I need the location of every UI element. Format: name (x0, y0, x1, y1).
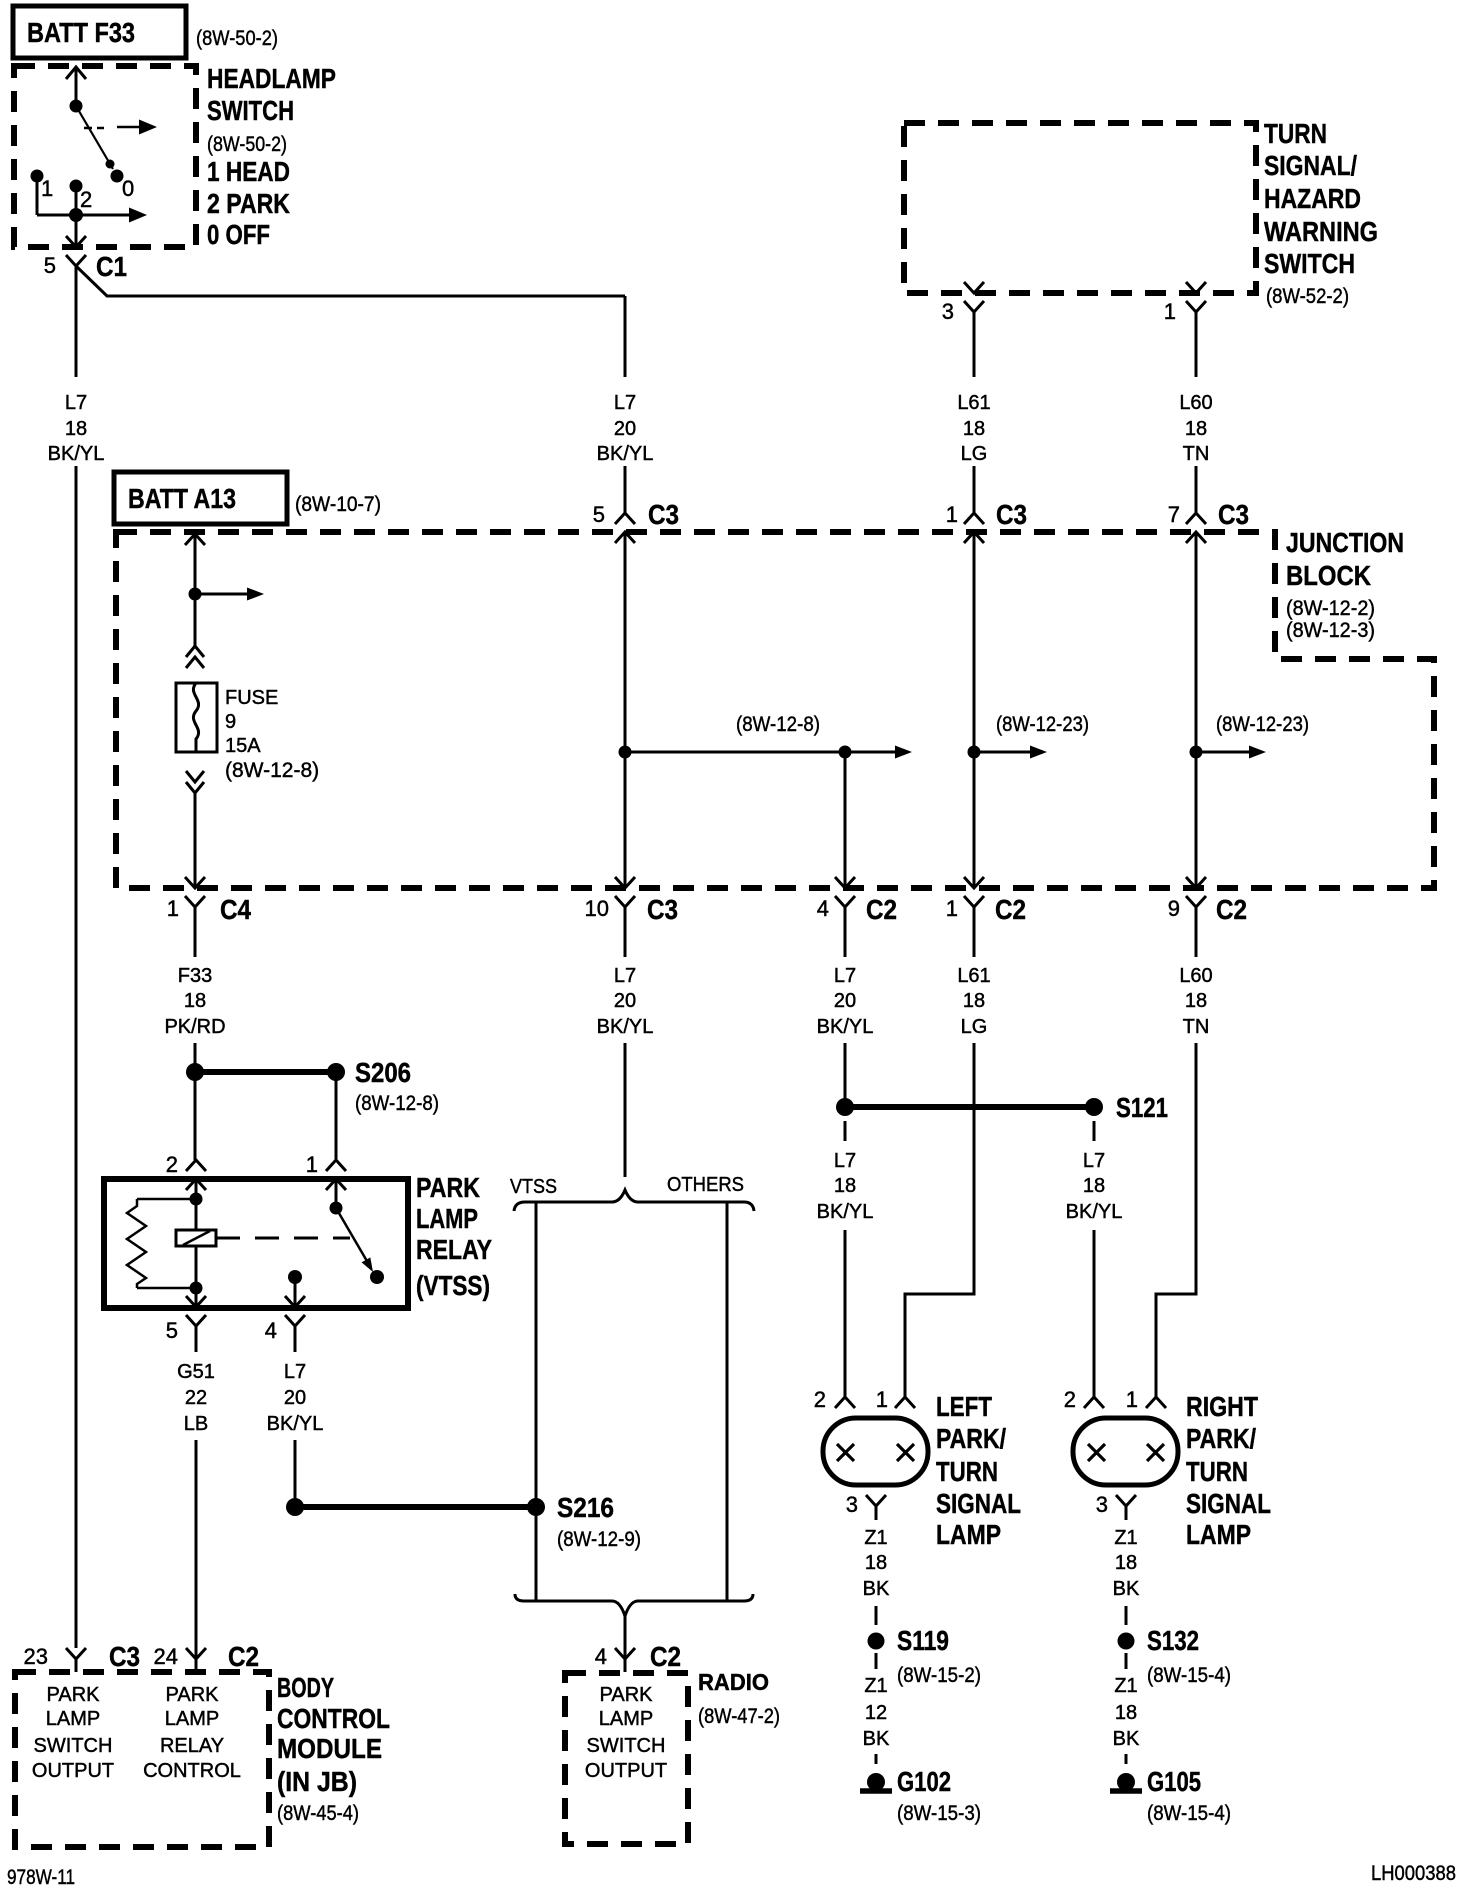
right lamp filament X right (1147, 1444, 1164, 1461)
svg-text:S121: S121 (1116, 1092, 1168, 1123)
fuse output wire to 1 C4 (194, 793, 197, 888)
svg-text:4: 4 (817, 896, 829, 921)
wire S121 right dashed stub (1093, 1121, 1096, 1141)
switch actuation dashed tie (84, 127, 104, 130)
connector C1 pin 5 symbol (66, 236, 86, 247)
svg-text:HAZARD: HAZARD (1264, 183, 1361, 214)
svg-text:18: 18 (1115, 1702, 1137, 1724)
switch wiper arrowhead (106, 160, 115, 169)
svg-text:L61: L61 (957, 392, 990, 414)
wire dash below S132 (1125, 1653, 1128, 1669)
splice S121 tie line (845, 1104, 1094, 1110)
svg-text:4: 4 (595, 1644, 607, 1669)
svg-text:L7: L7 (284, 1361, 306, 1383)
splice S119 dot (868, 1633, 885, 1650)
svg-text:L61: L61 (957, 965, 990, 987)
switch output arrow right (76, 214, 130, 217)
svg-text:SWITCH: SWITCH (587, 1735, 666, 1757)
svg-text:HEADLAMP: HEADLAMP (207, 63, 336, 94)
svg-text:1: 1 (41, 176, 53, 201)
svg-text:S206: S206 (355, 1057, 411, 1088)
svg-text:CONTROL: CONTROL (277, 1703, 390, 1734)
svg-text:18: 18 (963, 418, 985, 440)
wire 4C2 down upper (844, 907, 847, 957)
svg-text:BLOCK: BLOCK (1286, 560, 1371, 591)
fuse bottom terminal chevrons (186, 771, 204, 782)
relay coil top dot (190, 1193, 203, 1206)
right lamp filament X left (1088, 1444, 1105, 1461)
svg-text:C2: C2 (995, 894, 1026, 925)
fuse feed box BATT F33 (13, 6, 186, 58)
svg-text:C2: C2 (228, 1641, 259, 1672)
svg-text:1: 1 (167, 896, 179, 921)
batt a13 feed male arrow (185, 534, 205, 545)
svg-text:RELAY: RELAY (416, 1234, 492, 1265)
svg-text:5: 5 (44, 253, 56, 278)
svg-text:SWITCH: SWITCH (34, 1735, 113, 1757)
svg-text:15A: 15A (225, 735, 261, 757)
svg-text:L7: L7 (834, 965, 856, 987)
wire S121 left dashed stub (844, 1121, 847, 1141)
svg-text:OTHERS: OTHERS (667, 1174, 744, 1196)
switch actuation arrow (117, 126, 141, 129)
svg-text:TURN: TURN (1264, 118, 1327, 149)
svg-text:TURN: TURN (1186, 1456, 1248, 1487)
svg-text:3: 3 (942, 299, 954, 324)
wire L60 to 7 C3 (1195, 466, 1198, 514)
relay coil feed wire (195, 1179, 198, 1230)
svg-text:PARK: PARK (416, 1172, 480, 1203)
svg-text:Z1: Z1 (1114, 1527, 1137, 1549)
wire 1C3 down inside block (973, 533, 976, 888)
park lamp relay box (104, 1179, 408, 1308)
svg-text:978W-11: 978W-11 (7, 1866, 75, 1889)
relay resistor bottom lead (137, 1287, 196, 1290)
svg-text:7: 7 (1168, 502, 1180, 527)
turn signal hazard switch dashed box (904, 123, 1256, 293)
headlamp switch dashed box (14, 66, 196, 247)
svg-text:(8W-45-4): (8W-45-4) (277, 1802, 359, 1825)
svg-text:1: 1 (946, 502, 958, 527)
svg-text:LAMP: LAMP (165, 1708, 219, 1730)
feed branch arrow right (195, 593, 248, 596)
svg-text:20: 20 (834, 990, 856, 1012)
connector 4 C2 symbol (835, 877, 855, 888)
svg-text:OUTPUT: OUTPUT (585, 1760, 667, 1782)
connector 1 C4 symbol (185, 877, 205, 888)
svg-text:SIGNAL: SIGNAL (936, 1488, 1021, 1519)
wire contact1 to output (36, 176, 39, 215)
connector 1 C2 symbol (964, 877, 984, 888)
svg-text:MODULE: MODULE (277, 1733, 382, 1764)
svg-text:18: 18 (1083, 1175, 1105, 1197)
relay pin5 wire to edge (195, 1288, 198, 1307)
svg-text:BK: BK (1113, 1578, 1140, 1600)
svg-text:Z1: Z1 (864, 1527, 887, 1549)
svg-text:PARK: PARK (47, 1684, 101, 1706)
svg-text:C4: C4 (220, 894, 251, 925)
svg-text:22: 22 (185, 1387, 207, 1409)
svg-text:(8W-12-2): (8W-12-2) (1286, 597, 1375, 620)
svg-text:C2: C2 (1216, 894, 1247, 925)
svg-text:(8W-15-2): (8W-15-2) (897, 1664, 981, 1687)
svg-text:S132: S132 (1147, 1625, 1199, 1656)
wire relay pin5 stem (195, 1326, 198, 1352)
svg-text:3: 3 (846, 1492, 858, 1517)
svg-text:SWITCH: SWITCH (1264, 248, 1355, 279)
tap arrow right at x1196 (1196, 751, 1250, 754)
svg-text:Z1: Z1 (864, 1675, 887, 1697)
svg-text:S216: S216 (557, 1492, 614, 1523)
switch contact 2 dot (70, 180, 83, 193)
svg-text:L7: L7 (614, 965, 636, 987)
distribution bus line (625, 751, 896, 754)
wire S206 right to relay pin 1 (335, 1072, 338, 1160)
svg-text:BATT F33: BATT F33 (27, 17, 135, 48)
wire C1 pin5 down (upper) (75, 266, 78, 377)
svg-text:OUTPUT: OUTPUT (32, 1760, 114, 1782)
svg-text:TURN: TURN (936, 1456, 998, 1487)
svg-text:BK/YL: BK/YL (597, 1016, 654, 1038)
svg-text:RELAY: RELAY (160, 1735, 224, 1757)
svg-text:9: 9 (1168, 896, 1180, 921)
tap dot at x1196 (1190, 746, 1203, 759)
bcm dashed box (15, 1672, 269, 1847)
right lamp pin 3 connector (1116, 1495, 1136, 1506)
svg-text:(8W-12-9): (8W-12-9) (557, 1528, 641, 1551)
relay switch arm (336, 1208, 371, 1268)
wire 5C3 down inside block (624, 533, 627, 888)
svg-text:(IN JB): (IN JB) (277, 1766, 357, 1797)
left lamp pin 1 connector (895, 1397, 915, 1408)
svg-text:BK/YL: BK/YL (1066, 1201, 1123, 1223)
svg-text:F33: F33 (178, 965, 212, 987)
svg-text:SIGNAL/: SIGNAL/ (1264, 150, 1357, 181)
wire L61 to left lamp pin 1 (905, 1043, 974, 1397)
left lamp filament X right (897, 1444, 914, 1461)
svg-text:BATT A13: BATT A13 (128, 483, 236, 514)
wire 10C3 column to brace (624, 1043, 627, 1177)
wire VTSS branch (535, 1202, 538, 1601)
feed box BATT A13 (114, 472, 287, 524)
right lamp pin 2 connector (1084, 1397, 1104, 1408)
svg-text:G51: G51 (177, 1361, 215, 1383)
svg-text:23: 23 (24, 1644, 48, 1669)
wire dash to G105 (1125, 1754, 1128, 1764)
svg-text:20: 20 (614, 990, 636, 1012)
svg-text:(8W-15-4): (8W-15-4) (1147, 1802, 1231, 1825)
connector 1 C3 symbol (964, 513, 984, 524)
switch contact 1 dot (31, 170, 44, 183)
svg-text:TN: TN (1183, 1016, 1210, 1038)
svg-text:(8W-10-7): (8W-10-7) (295, 493, 381, 516)
splice S206 tie line (195, 1069, 336, 1075)
switch wiper arm (76, 106, 113, 169)
svg-text:18: 18 (65, 418, 87, 440)
svg-text:LEFT: LEFT (936, 1391, 992, 1422)
wire branch down to 5 C3 (lower) (624, 466, 627, 514)
wire L61 to 1 C3 (973, 466, 976, 514)
wire pin4 lower to S216 (294, 1440, 297, 1507)
wire L60 upper (1195, 312, 1198, 377)
distribution tap dot at x845 (839, 746, 852, 759)
svg-text:G105: G105 (1147, 1766, 1201, 1797)
connector 7 C3 symbol (1186, 513, 1206, 524)
wire 10C3 stem below junction block (624, 907, 627, 957)
svg-text:18: 18 (1185, 418, 1207, 440)
tap dot at x974 (968, 746, 981, 759)
svg-text:BK/YL: BK/YL (48, 443, 105, 465)
svg-text:LAMP: LAMP (416, 1203, 478, 1234)
svg-text:L7: L7 (614, 392, 636, 414)
relay pin 5 connector (186, 1296, 206, 1307)
bcm connector 24 C2 female (186, 1648, 206, 1659)
svg-text:SIGNAL: SIGNAL (1186, 1488, 1271, 1519)
wire OTHERS branch (726, 1202, 729, 1601)
svg-text:VTSS: VTSS (510, 1176, 557, 1198)
feed branch dot (189, 588, 202, 601)
wire dash below S119 (875, 1653, 878, 1669)
svg-text:FUSE: FUSE (225, 687, 278, 709)
relay coil to pin 5 wire (195, 1246, 198, 1288)
svg-text:1: 1 (876, 1387, 888, 1412)
svg-text:BK/YL: BK/YL (267, 1413, 324, 1435)
svg-text:1: 1 (946, 896, 958, 921)
connector 5 C3 symbol (615, 513, 635, 524)
bcm connector 23 C3 female (66, 1648, 86, 1659)
svg-text:WARNING: WARNING (1264, 216, 1378, 247)
svg-text:PK/RD: PK/RD (164, 1016, 225, 1038)
wire contact2 down to pin 5 (75, 186, 78, 247)
ground G102 symbol (867, 1773, 885, 1791)
left lamp pin 2 connector (835, 1397, 855, 1408)
junction block dashed outline (116, 532, 1434, 888)
svg-text:LH000388: LH000388 (1371, 1862, 1456, 1885)
svg-text:1: 1 (306, 1152, 318, 1177)
svg-text:CONTROL: CONTROL (143, 1760, 241, 1782)
svg-text:(8W-15-3): (8W-15-3) (897, 1802, 981, 1825)
svg-text:L7: L7 (65, 392, 87, 414)
distribution bus arrowhead (895, 746, 912, 759)
svg-text:18: 18 (184, 990, 206, 1012)
svg-text:(VTSS): (VTSS) (416, 1270, 490, 1301)
svg-text:5: 5 (593, 502, 605, 527)
left lamp filament X left (837, 1444, 854, 1461)
svg-text:RIGHT: RIGHT (1186, 1391, 1258, 1422)
tap arrow right at x974 (974, 751, 1031, 754)
svg-text:BK/YL: BK/YL (817, 1016, 874, 1038)
svg-text:LAMP: LAMP (1186, 1519, 1251, 1550)
relay resistor top lead (137, 1198, 196, 1201)
svg-text:9: 9 (225, 711, 236, 733)
wire S121 right to right lamp pin 2 (1093, 1230, 1096, 1397)
svg-text:12: 12 (865, 1702, 887, 1724)
svg-text:1: 1 (1164, 299, 1176, 324)
svg-text:G102: G102 (897, 1766, 951, 1797)
wire branch down to 5 C3 (upper) (624, 296, 627, 377)
relay coil box (176, 1230, 216, 1246)
svg-text:TN: TN (1183, 443, 1210, 465)
svg-text:1: 1 (1126, 1387, 1138, 1412)
relay switch pivot dot (330, 1202, 343, 1215)
svg-text:(8W-52-2): (8W-52-2) (1266, 285, 1349, 308)
svg-text:BK: BK (863, 1728, 890, 1750)
wire S121 left to left lamp pin 2 (844, 1230, 847, 1397)
svg-text:5: 5 (166, 1318, 178, 1343)
svg-text:C2: C2 (866, 894, 897, 925)
svg-text:Z1: Z1 (1114, 1675, 1137, 1697)
headlamp switch feed wire (75, 67, 78, 106)
svg-text:(8W-12-8): (8W-12-8) (225, 759, 319, 782)
svg-text:RADIO: RADIO (698, 1669, 769, 1695)
relay coil diagonal (183, 1231, 210, 1245)
relay pin4 wire to edge (294, 1277, 297, 1307)
svg-text:LAMP: LAMP (936, 1519, 1001, 1550)
wire G51 lower to 24 C2 (195, 1440, 198, 1659)
wire dash to G102 (875, 1754, 878, 1764)
radio connector 4 C2 female (615, 1648, 635, 1659)
svg-text:1 HEAD: 1 HEAD (207, 156, 290, 187)
fuse element wavy line (193, 683, 198, 752)
brace center tip to 4 C2 (624, 1616, 627, 1659)
wire dash to S132 (1125, 1606, 1128, 1625)
svg-text:4: 4 (265, 1318, 277, 1343)
svg-text:(8W-12-3): (8W-12-3) (1286, 619, 1375, 642)
svg-text:18: 18 (834, 1175, 856, 1197)
svg-text:10: 10 (585, 896, 609, 921)
svg-text:(8W-15-4): (8W-15-4) (1147, 1664, 1231, 1687)
wire relay pin4 stem (294, 1326, 297, 1352)
splice S121 right dot (1085, 1098, 1103, 1116)
wire branch C1 diagonal (76, 266, 625, 296)
svg-text:L60: L60 (1179, 392, 1212, 414)
svg-text:24: 24 (154, 1644, 178, 1669)
connector pin 3 of hazard switch (964, 282, 984, 293)
splice S121 left dot (836, 1098, 854, 1116)
svg-text:BK/YL: BK/YL (597, 443, 654, 465)
relay switch pin1 wire (335, 1179, 338, 1208)
relay pin 2 connector (186, 1160, 206, 1171)
svg-text:C2: C2 (650, 1641, 681, 1672)
right lamp pin 1 connector (1146, 1397, 1166, 1408)
wire 4C2 lower to S121 (844, 1043, 847, 1107)
svg-text:(8W-47-2): (8W-47-2) (698, 1705, 780, 1728)
relay resistor zigzag (127, 1199, 146, 1288)
svg-text:(8W-12-23): (8W-12-23) (1216, 713, 1309, 736)
wire dash to S119 (875, 1606, 878, 1625)
svg-text:L7: L7 (834, 1150, 856, 1172)
svg-text:PARK: PARK (166, 1684, 220, 1706)
svg-text:2: 2 (166, 1152, 178, 1177)
svg-text:S119: S119 (897, 1625, 949, 1656)
svg-text:(8W-12-8): (8W-12-8) (736, 713, 820, 736)
svg-text:LG: LG (961, 443, 988, 465)
svg-text:L7: L7 (1083, 1150, 1105, 1172)
svg-text:18: 18 (865, 1552, 887, 1574)
wire 1C2 down upper (973, 907, 976, 957)
svg-text:BK: BK (863, 1578, 890, 1600)
fuse top terminal chevrons (186, 646, 204, 657)
switch output junction dot (69, 208, 83, 222)
relay actuation dashed link (216, 1237, 350, 1240)
relay switch contact dot (370, 1270, 384, 1284)
svg-text:20: 20 (284, 1387, 306, 1409)
svg-text:LG: LG (961, 1016, 988, 1038)
svg-text:0: 0 (122, 176, 134, 201)
wire F33 upper (194, 907, 197, 957)
ground G105 symbol (1117, 1773, 1135, 1791)
wire 9C2 down upper (1195, 907, 1198, 957)
connector pin 1 of hazard switch (1186, 282, 1206, 293)
svg-text:C3: C3 (1218, 499, 1249, 530)
svg-text:0 OFF: 0 OFF (207, 219, 270, 250)
relay pin 4 connector (285, 1296, 305, 1307)
batt a13 feed wire upper (194, 534, 197, 646)
svg-text:C3: C3 (996, 499, 1027, 530)
svg-text:(8W-12-23): (8W-12-23) (996, 713, 1089, 736)
svg-text:18: 18 (1115, 1552, 1137, 1574)
svg-text:LAMP: LAMP (599, 1708, 653, 1730)
svg-text:(8W-50-2): (8W-50-2) (207, 133, 287, 156)
splice S206 left dot (186, 1063, 204, 1081)
wire L61 upper (973, 312, 976, 377)
svg-text:(8W-12-8): (8W-12-8) (355, 1092, 439, 1115)
splice S216 left dot (286, 1498, 304, 1516)
svg-text:PARK/: PARK/ (1186, 1423, 1256, 1454)
brace under VTSS/OTHERS (515, 1594, 753, 1616)
svg-text:PARK: PARK (600, 1684, 654, 1706)
svg-text:BK: BK (1113, 1728, 1140, 1750)
radio dashed box (565, 1673, 688, 1844)
wire S206 left to relay pin 2 (194, 1072, 197, 1160)
brace over VTSS/OTHERS (514, 1190, 754, 1211)
svg-text:3: 3 (1096, 1492, 1108, 1517)
svg-text:18: 18 (963, 990, 985, 1012)
svg-text:2 PARK: 2 PARK (207, 188, 290, 219)
splice S132 dot (1118, 1633, 1135, 1650)
relay coil bottom dot (190, 1282, 203, 1295)
switch common pole dot (70, 100, 83, 113)
relay switch arm arrowhead (362, 1257, 373, 1272)
wire from tap down to 4 C2 (844, 752, 847, 888)
wire F33 lower to S206 (194, 1043, 197, 1072)
svg-text:BODY: BODY (277, 1672, 334, 1703)
splice S216 right dot (527, 1498, 545, 1516)
svg-text:2: 2 (814, 1387, 826, 1412)
svg-text:LB: LB (184, 1413, 208, 1435)
svg-text:LAMP: LAMP (46, 1708, 100, 1730)
svg-text:2: 2 (1064, 1387, 1076, 1412)
svg-text:C3: C3 (109, 1641, 140, 1672)
svg-text:20: 20 (614, 418, 636, 440)
svg-text:SWITCH: SWITCH (207, 95, 294, 126)
right lamp bulb outline (1073, 1418, 1178, 1485)
connector 10 C3 symbol (615, 877, 635, 888)
svg-text:18: 18 (1185, 990, 1207, 1012)
svg-text:JUNCTION: JUNCTION (1286, 527, 1404, 558)
wire C1 pin5 down (long to BCM 23) (75, 466, 78, 1648)
svg-text:C3: C3 (647, 894, 678, 925)
svg-text:(8W-50-2): (8W-50-2) (196, 27, 278, 50)
connector 9 C2 symbol (1186, 877, 1206, 888)
wire L60 to right lamp pin 1 (1156, 1043, 1196, 1397)
svg-text:C1: C1 (96, 251, 127, 282)
wire 7C3 down inside block (1195, 533, 1198, 888)
svg-text:2: 2 (80, 187, 92, 212)
fuse 9 body (176, 683, 217, 752)
left lamp pin 3 connector (866, 1495, 886, 1506)
svg-text:BK/YL: BK/YL (817, 1201, 874, 1223)
